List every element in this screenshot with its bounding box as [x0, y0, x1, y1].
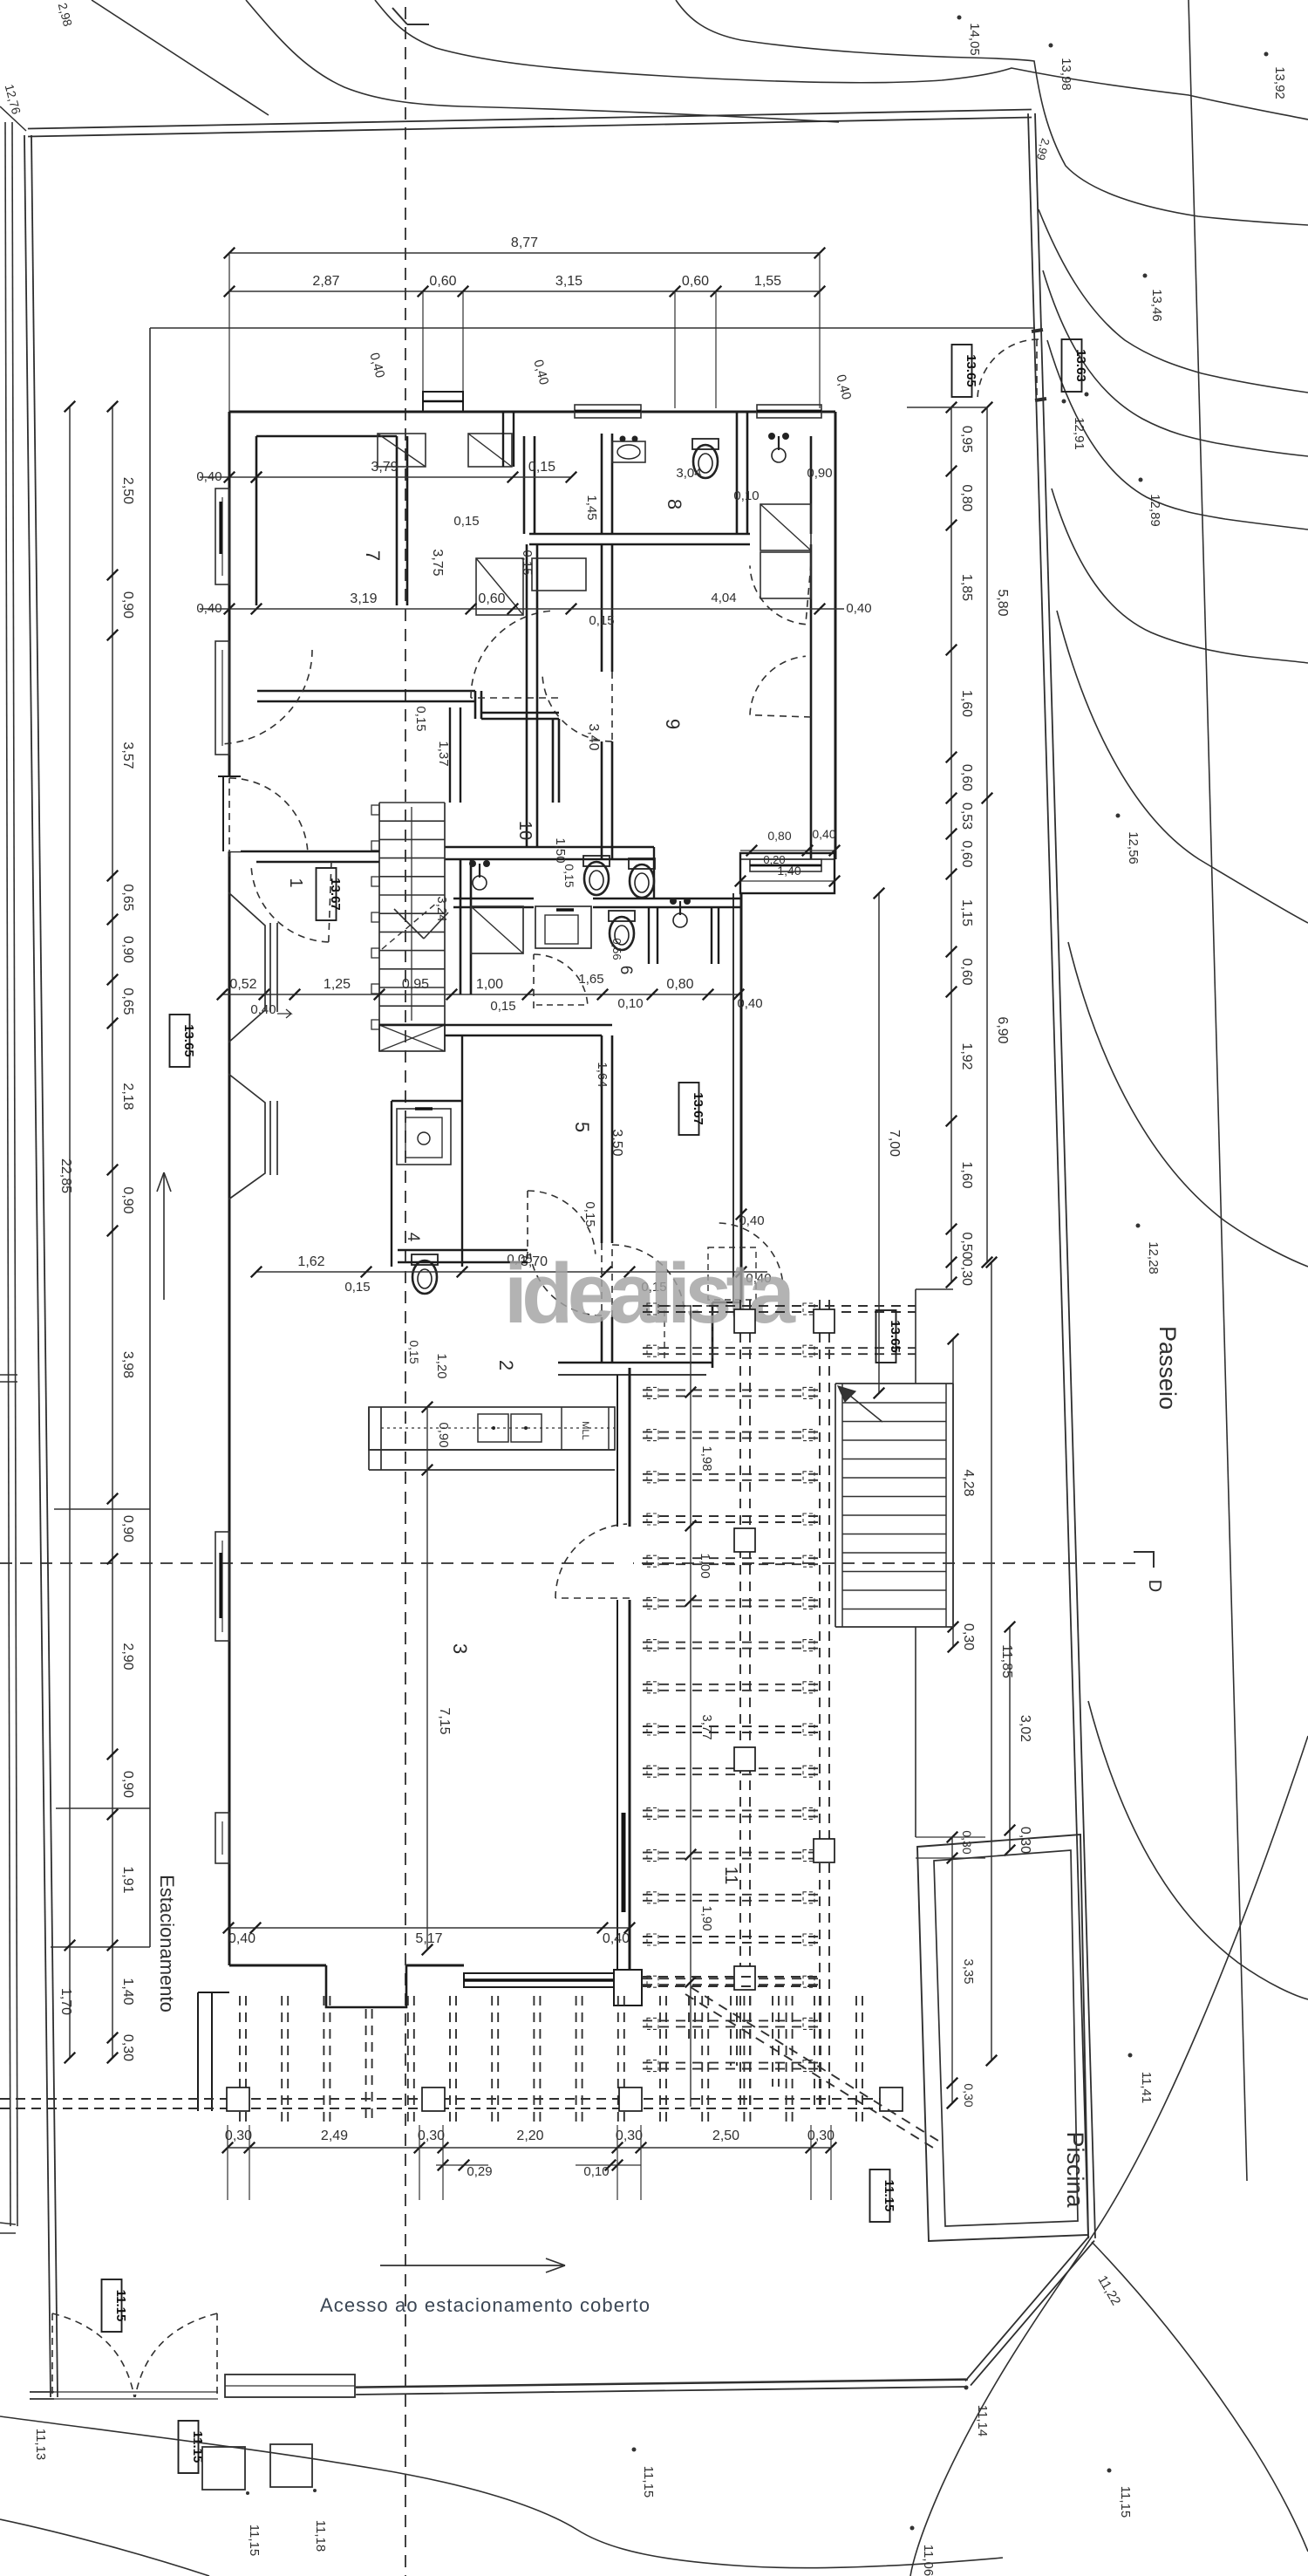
svg-text:8,77: 8,77	[511, 236, 538, 250]
svg-text:11,15: 11,15	[247, 2525, 262, 2556]
svg-text:2,50: 2,50	[712, 2128, 739, 2143]
svg-text:10: 10	[515, 821, 535, 840]
elevation box 11.15 west lower	[179, 2421, 199, 2473]
building outer wall top	[229, 411, 835, 413]
svg-text:11,85: 11,85	[999, 1644, 1014, 1678]
parking stall divider 2	[56, 1807, 150, 1809]
svg-text:0,15: 0,15	[520, 550, 535, 575]
label 11,15 far right	[1107, 2469, 1112, 2473]
svg-text:1,70: 1,70	[58, 1988, 73, 2015]
contour label 13,98	[1049, 44, 1053, 48]
svg-text:1,37: 1,37	[436, 741, 451, 766]
bath right basin	[673, 913, 687, 927]
terrace platform outline west	[149, 328, 151, 1947]
room7 door double arc (dashed)	[471, 611, 552, 698]
svg-text:13,98: 13,98	[1059, 58, 1073, 91]
svg-text:1: 1	[286, 878, 305, 887]
svg-text:Passeio: Passeio	[1155, 1326, 1181, 1410]
site boundary east (double line)	[1028, 113, 1088, 2238]
svg-text:1,00: 1,00	[476, 977, 503, 992]
diagonal deck stairs slats	[688, 1996, 690, 2045]
svg-text:2,87: 2,87	[312, 274, 339, 289]
room10 fixtures	[473, 876, 487, 890]
adjacent parcel edge far west	[5, 122, 10, 2226]
svg-text:0,30: 0,30	[961, 1623, 976, 1650]
svg-text:0,95: 0,95	[402, 977, 429, 992]
right chain top connector	[907, 407, 987, 408]
staircase handrail posts	[371, 805, 379, 815]
svg-text:13.63: 13.63	[1073, 349, 1088, 382]
svg-text:1,65: 1,65	[578, 972, 603, 987]
site boundary south-east diagonal (double line)	[965, 2236, 1089, 2381]
spine door room9 (dashed arc)	[542, 674, 612, 741]
svg-text:5,80: 5,80	[995, 589, 1010, 616]
svg-text:0,15: 0,15	[453, 514, 479, 529]
svg-text:2,18: 2,18	[120, 1083, 135, 1110]
svg-text:11,15: 11,15	[1118, 2486, 1133, 2518]
top dimension chain segments	[229, 290, 820, 292]
svg-text:1,91: 1,91	[120, 1866, 135, 1893]
parking area bottom line	[51, 1946, 150, 1948]
west wall splayed window niche	[228, 892, 265, 1042]
pool outer outline	[917, 1835, 1088, 2241]
terrain contour right c9	[1088, 1701, 1308, 1999]
svg-text:2,49: 2,49	[321, 2128, 348, 2143]
dim chain y1458	[256, 1271, 630, 1273]
svg-text:11,22: 11,22	[1094, 2273, 1123, 2308]
svg-text:3,04: 3,04	[676, 466, 701, 481]
svg-text:0,56: 0,56	[610, 938, 623, 960]
closet box 2	[532, 558, 586, 591]
top wall window band right	[757, 405, 821, 418]
svg-text:0,15: 0,15	[344, 1280, 370, 1295]
wall rooms 8|9	[529, 533, 750, 536]
svg-text:12,91: 12,91	[1072, 417, 1087, 450]
bottom dimension chain	[228, 2147, 831, 2149]
svg-text:3,19: 3,19	[350, 591, 377, 606]
external stair elevation box 13.65	[876, 1310, 896, 1363]
diagonal stair banister (dashed)	[685, 1994, 933, 2148]
dimension 4,28 0,30 external stair	[952, 1339, 954, 1647]
svg-text:14,05: 14,05	[967, 23, 982, 56]
svg-text:12,28: 12,28	[1146, 1241, 1161, 1274]
svg-text:0,80: 0,80	[666, 977, 693, 992]
bath6 partition	[648, 906, 650, 964]
south gate left leaf (dashed)	[51, 2313, 53, 2397]
south gate right leaf (dashed)	[216, 2313, 218, 2397]
parcel edge bottom connector	[0, 2223, 16, 2224]
east gate jambs	[1032, 330, 1043, 331]
svg-text:3,24: 3,24	[434, 896, 449, 921]
svg-text:0,90: 0,90	[120, 591, 135, 618]
svg-text:13.65: 13.65	[181, 1024, 196, 1057]
closet partition stub	[502, 412, 504, 467]
label 11,15 south middle	[632, 2448, 637, 2452]
south porch notch	[326, 1965, 406, 2007]
room4 toilet	[412, 1254, 438, 1294]
wall closet/room8 divider and room9 west wall	[523, 436, 526, 534]
entry porch step east	[712, 1302, 741, 1304]
contour dot+label 12,89	[1139, 478, 1143, 482]
pool dim 3,35	[951, 1837, 953, 2103]
svg-text:0,60: 0,60	[959, 840, 974, 867]
svg-text:1,60: 1,60	[959, 690, 974, 717]
wall right of stairs	[449, 707, 451, 803]
elevation box 11.15 west	[102, 2279, 122, 2332]
kitchen MLL	[561, 1407, 562, 1450]
svg-text:1,25: 1,25	[324, 977, 351, 992]
west wall splayed window niche 2	[228, 1074, 265, 1199]
svg-text:0,60: 0,60	[959, 764, 974, 791]
interior spine wall lower	[601, 1035, 603, 1243]
dimension 11,85 line	[991, 1262, 992, 2060]
svg-text:3,79: 3,79	[371, 460, 398, 475]
kitchen sink+stove boxes	[478, 1414, 508, 1442]
boundary inner line south	[356, 2379, 966, 2387]
svg-text:0,53: 0,53	[959, 803, 974, 830]
wardrobe boxes closet upper	[378, 434, 426, 467]
staircase center rail	[411, 807, 412, 1021]
kitchen north wall	[558, 1362, 712, 1364]
deck mid beam (dashed)	[739, 1300, 741, 2107]
external stair block	[835, 1383, 953, 1384]
bathroom strip wall below room10	[453, 898, 534, 900]
svg-text:0,40: 0,40	[812, 827, 835, 841]
svg-text:0,40: 0,40	[530, 359, 551, 387]
svg-text:0,40: 0,40	[228, 1931, 255, 1946]
south-east pillar	[614, 1970, 642, 2005]
room9 wardrobes	[760, 504, 811, 550]
site boundary west (double line)	[24, 135, 51, 2397]
contour dot 14,05	[957, 16, 962, 20]
svg-text:1,55: 1,55	[754, 274, 781, 289]
svg-text:13.67: 13.67	[328, 878, 343, 911]
svg-text:0,40: 0,40	[603, 1931, 630, 1946]
interior spine wall upper	[601, 434, 603, 534]
contour dot+label 12,91	[1062, 400, 1066, 404]
svg-text:11,13: 11,13	[33, 2429, 48, 2460]
svg-text:2: 2	[495, 1360, 517, 1370]
svg-text:0,60: 0,60	[429, 274, 456, 289]
section mark top arrow	[407, 24, 429, 25]
left dimension chain segments	[112, 407, 113, 2058]
pool area labels	[1128, 2053, 1133, 2058]
svg-text:0,15: 0,15	[528, 460, 555, 475]
svg-text:11,06: 11,06	[921, 2545, 936, 2576]
svg-text:1,45: 1,45	[584, 495, 599, 520]
svg-text:0,90: 0,90	[120, 1186, 135, 1213]
staircase landing	[379, 1025, 445, 1051]
top chain extension lines	[228, 253, 230, 412]
west wall window bays	[215, 489, 229, 584]
svg-text:1,15: 1,15	[959, 899, 974, 926]
svg-text:3,98: 3,98	[120, 1351, 135, 1378]
top dimension chain overall 8,77	[229, 252, 820, 254]
room7 west door arc (dashed)	[225, 650, 313, 744]
deck beam posts	[734, 1309, 755, 1333]
contour dot+label 12,28	[1136, 1224, 1141, 1228]
svg-text:11.15: 11.15	[113, 2290, 128, 2322]
left dimension chain outer 22,85 1,70	[69, 407, 71, 2058]
contour dot+label 12,56	[1116, 814, 1121, 818]
bath6 toilet	[609, 911, 635, 950]
svg-text:0,40: 0,40	[739, 1213, 764, 1228]
svg-text:4,04: 4,04	[711, 591, 736, 605]
terrace edge right	[915, 1289, 916, 1384]
svg-text:12,56: 12,56	[1126, 831, 1141, 864]
svg-text:13,92: 13,92	[1272, 66, 1287, 99]
svg-text:3,57: 3,57	[120, 741, 135, 769]
main staircase treads	[379, 802, 445, 803]
right dimension 7,00 line	[878, 893, 880, 1393]
section line horizontal D-D (dashed)	[0, 1562, 1141, 1564]
svg-text:9: 9	[662, 719, 684, 729]
deck right beam (dashed)	[819, 1300, 821, 2107]
dim 4,04 segment	[571, 608, 844, 610]
svg-text:1,62: 1,62	[297, 1254, 324, 1269]
svg-text:0,15: 0,15	[562, 864, 576, 887]
svg-text:7,15: 7,15	[437, 1707, 452, 1734]
svg-text:0,15: 0,15	[490, 999, 515, 1014]
chimney block above top wall	[423, 392, 463, 412]
svg-text:0,10: 0,10	[733, 489, 759, 503]
closet tall wardrobe	[476, 558, 523, 615]
corridor wall segment	[481, 712, 559, 714]
east wall window fill	[622, 1813, 626, 1912]
room4 bath walls	[391, 1101, 392, 1267]
site boundary south (double line)	[356, 2380, 968, 2388]
svg-text:0,30: 0,30	[418, 2128, 445, 2143]
south window band	[464, 1973, 614, 1987]
svg-text:4,28: 4,28	[961, 1469, 976, 1496]
svg-text:0,65: 0,65	[120, 987, 135, 1015]
closet wall right of room7	[396, 436, 399, 605]
svg-text:1,50: 1,50	[553, 837, 568, 863]
top bathroom partition (room8)	[736, 412, 739, 534]
svg-text:0,60: 0,60	[682, 274, 709, 289]
terrain contour right c4	[1043, 270, 1308, 456]
svg-text:0,10: 0,10	[583, 2164, 609, 2179]
svg-text:22,85: 22,85	[58, 1158, 73, 1193]
svg-text:0,80: 0,80	[767, 829, 791, 843]
main staircase rails	[378, 803, 380, 1051]
svg-text:11.15: 11.15	[882, 2180, 896, 2212]
pool inner outline	[934, 1850, 1078, 2226]
svg-text:6: 6	[617, 966, 635, 975]
dim 3,79 0,15 line	[256, 476, 571, 478]
site boundary south-west stub	[30, 2398, 54, 2400]
gate threshold line	[54, 2391, 218, 2393]
room1 north wall	[229, 851, 379, 853]
bottom deck posts	[227, 2087, 249, 2111]
dim 3,19 1,60 0,15 line y698	[256, 608, 571, 610]
svg-text:0,90: 0,90	[436, 1422, 451, 1447]
svg-text:0,90: 0,90	[807, 466, 832, 481]
svg-text:0,30: 0,30	[1018, 1827, 1032, 1854]
corridor wall vertical to stairs	[552, 719, 555, 803]
svg-text:6,90: 6,90	[995, 1016, 1010, 1043]
svg-text:13.67: 13.67	[691, 1092, 705, 1125]
elevation box 13.63 east	[1062, 339, 1082, 392]
window room9 south wall	[750, 859, 821, 871]
footing square 1	[202, 2447, 245, 2490]
svg-text:0,80: 0,80	[959, 484, 974, 511]
svg-text:1,60: 1,60	[959, 1161, 974, 1188]
building east wall mid (hall block)	[740, 893, 743, 1302]
svg-text:0,15: 0,15	[407, 1340, 421, 1363]
svg-text:3: 3	[449, 1643, 471, 1654]
dimension 3,02 0,30	[1009, 1627, 1011, 1850]
bay dimension 1,40	[740, 880, 835, 882]
svg-text:3,15: 3,15	[555, 274, 582, 289]
top terrain corner line	[0, 106, 26, 131]
room9 door arcs at east wall	[750, 565, 806, 624]
svg-text:1,20: 1,20	[434, 1353, 449, 1378]
svg-text:Piscina: Piscina	[1062, 2131, 1088, 2208]
elevation box 13.65 at east gate	[952, 345, 972, 397]
svg-text:13.65: 13.65	[888, 1320, 903, 1353]
porch entry door arc	[719, 1223, 783, 1280]
svg-text:3,77: 3,77	[699, 1714, 714, 1739]
svg-text:0,50: 0,50	[959, 1232, 974, 1259]
svg-text:1,98: 1,98	[699, 1445, 714, 1471]
top wall window band room8	[575, 405, 641, 418]
room4 vanity	[397, 1109, 451, 1165]
contour label 13,92	[1264, 52, 1269, 57]
svg-text:MLL: MLL	[580, 1421, 590, 1439]
svg-text:5,17: 5,17	[415, 1931, 442, 1946]
parcel edge connector mid	[0, 1374, 17, 1376]
svg-text:0,30: 0,30	[225, 2128, 252, 2143]
top terrain contour line 2	[246, 0, 839, 122]
bath6 vanity	[535, 906, 591, 948]
boundary wall block south gate	[225, 2374, 355, 2397]
bath6 shower	[471, 906, 523, 953]
deck area 11 slat rows (dashed)	[643, 1305, 916, 1307]
corridor step wall	[474, 691, 477, 719]
svg-text:8: 8	[664, 499, 685, 509]
svg-text:0,30: 0,30	[959, 1259, 974, 1286]
svg-text:0,15: 0,15	[582, 1201, 597, 1227]
room1 door arc north	[251, 867, 329, 942]
svg-text:0,95: 0,95	[959, 426, 974, 453]
svg-text:3,50: 3,50	[610, 1129, 624, 1156]
svg-text:2,20: 2,20	[516, 2128, 543, 2143]
external stair treads	[842, 1402, 946, 1404]
room5 north wall	[379, 1024, 612, 1027]
svg-text:0,29: 0,29	[467, 2164, 492, 2179]
parking stall divider 1	[54, 1508, 150, 1510]
contour dot+label 13,46	[1143, 274, 1148, 278]
footing square 2	[270, 2444, 312, 2487]
svg-text:11,18: 11,18	[313, 2520, 328, 2552]
bath strip west wall	[460, 859, 462, 994]
west wall window glass marks	[219, 502, 221, 554]
porch dashes entry	[708, 1247, 756, 1300]
external stair arrow	[846, 1392, 882, 1422]
right dimension chain inner segments	[950, 407, 952, 1282]
svg-text:13.65: 13.65	[964, 354, 978, 387]
top terrain contour line 1	[92, 0, 269, 115]
svg-text:11: 11	[721, 1867, 740, 1885]
bay dimension chain 0,80 0,40	[740, 850, 835, 851]
svg-text:0,30: 0,30	[120, 2034, 135, 2061]
hall elevation box 13.67 right	[679, 1083, 699, 1135]
svg-text:0,30: 0,30	[960, 1830, 974, 1854]
svg-text:1,64: 1,64	[595, 1062, 610, 1087]
dim 5,17 chain south	[228, 1927, 630, 1929]
south-west deck support wall	[197, 1992, 199, 2111]
mid horizontal dimension chain	[222, 994, 739, 995]
svg-text:0,90: 0,90	[120, 1771, 135, 1798]
acesso arrow	[380, 2265, 565, 2266]
svg-text:2,90: 2,90	[120, 1643, 135, 1670]
terrain line bottom left	[0, 2416, 1003, 2568]
building south wall	[229, 1964, 326, 1967]
room8 sink counter	[612, 441, 645, 462]
svg-text:3,40: 3,40	[586, 723, 601, 750]
svg-text:1,90: 1,90	[699, 1905, 714, 1930]
svg-text:3,75: 3,75	[430, 549, 445, 576]
svg-text:0,30: 0,30	[962, 2083, 976, 2107]
terrace platform outline top	[150, 327, 1035, 329]
bath right east wall piece	[711, 907, 712, 964]
svg-text:4: 4	[404, 1233, 422, 1242]
svg-text:11,15: 11,15	[641, 2466, 656, 2497]
top terrain contour line 4	[676, 0, 1308, 225]
parking drive arrow	[163, 1172, 165, 1300]
svg-text:0,40: 0,40	[833, 373, 854, 402]
hall room1 elevation box 13.67	[317, 868, 337, 920]
bottom deck slat columns (dashed)	[239, 1996, 241, 2125]
svg-text:0,30: 0,30	[616, 2128, 643, 2143]
top terrain contour line 3	[375, 0, 1308, 120]
svg-text:12,89: 12,89	[1148, 494, 1162, 527]
svg-text:0,90: 0,90	[120, 936, 135, 963]
site boundary north (double line)	[28, 118, 1032, 137]
staircase break lines	[394, 909, 424, 939]
svg-text:1,92: 1,92	[959, 1042, 974, 1069]
svg-text:0,60: 0,60	[959, 958, 974, 985]
svg-text:Estacionamento: Estacionamento	[156, 1875, 178, 2012]
svg-text:2,50: 2,50	[120, 477, 135, 504]
terrain contour right c6	[1052, 489, 1308, 663]
svg-text:0,90: 0,90	[120, 1515, 135, 1542]
wall room7 bottom	[257, 690, 475, 693]
svg-text:0,40: 0,40	[737, 996, 762, 1011]
room3 door opening in east wall	[614, 1527, 633, 1600]
svg-text:0,15: 0,15	[589, 613, 614, 628]
pool contour bottom right	[910, 1736, 1308, 2576]
svg-text:11,14: 11,14	[975, 2405, 990, 2436]
section line vertical (dashed)	[405, 7, 406, 2576]
svg-text:0,10: 0,10	[617, 996, 643, 1011]
vent shaft bay east	[740, 853, 835, 893]
svg-text:0,52: 0,52	[229, 977, 256, 992]
svg-text:1,00: 1,00	[698, 1553, 712, 1578]
svg-text:0,40: 0,40	[846, 601, 871, 616]
room5 south wall	[398, 1249, 528, 1252]
hall double door arcs	[612, 1245, 685, 1311]
svg-text:7: 7	[362, 550, 384, 561]
svg-text:5: 5	[571, 1122, 593, 1132]
svg-text:0,40: 0,40	[366, 352, 387, 380]
svg-text:0,65: 0,65	[120, 884, 135, 911]
room5 door arc (dashed)	[528, 1191, 596, 1254]
svg-text:1,40: 1,40	[120, 1978, 135, 2005]
building east wall lower	[629, 1368, 631, 2005]
deck dim line 1,98 1,00 3,77 1,90	[690, 1306, 691, 2107]
